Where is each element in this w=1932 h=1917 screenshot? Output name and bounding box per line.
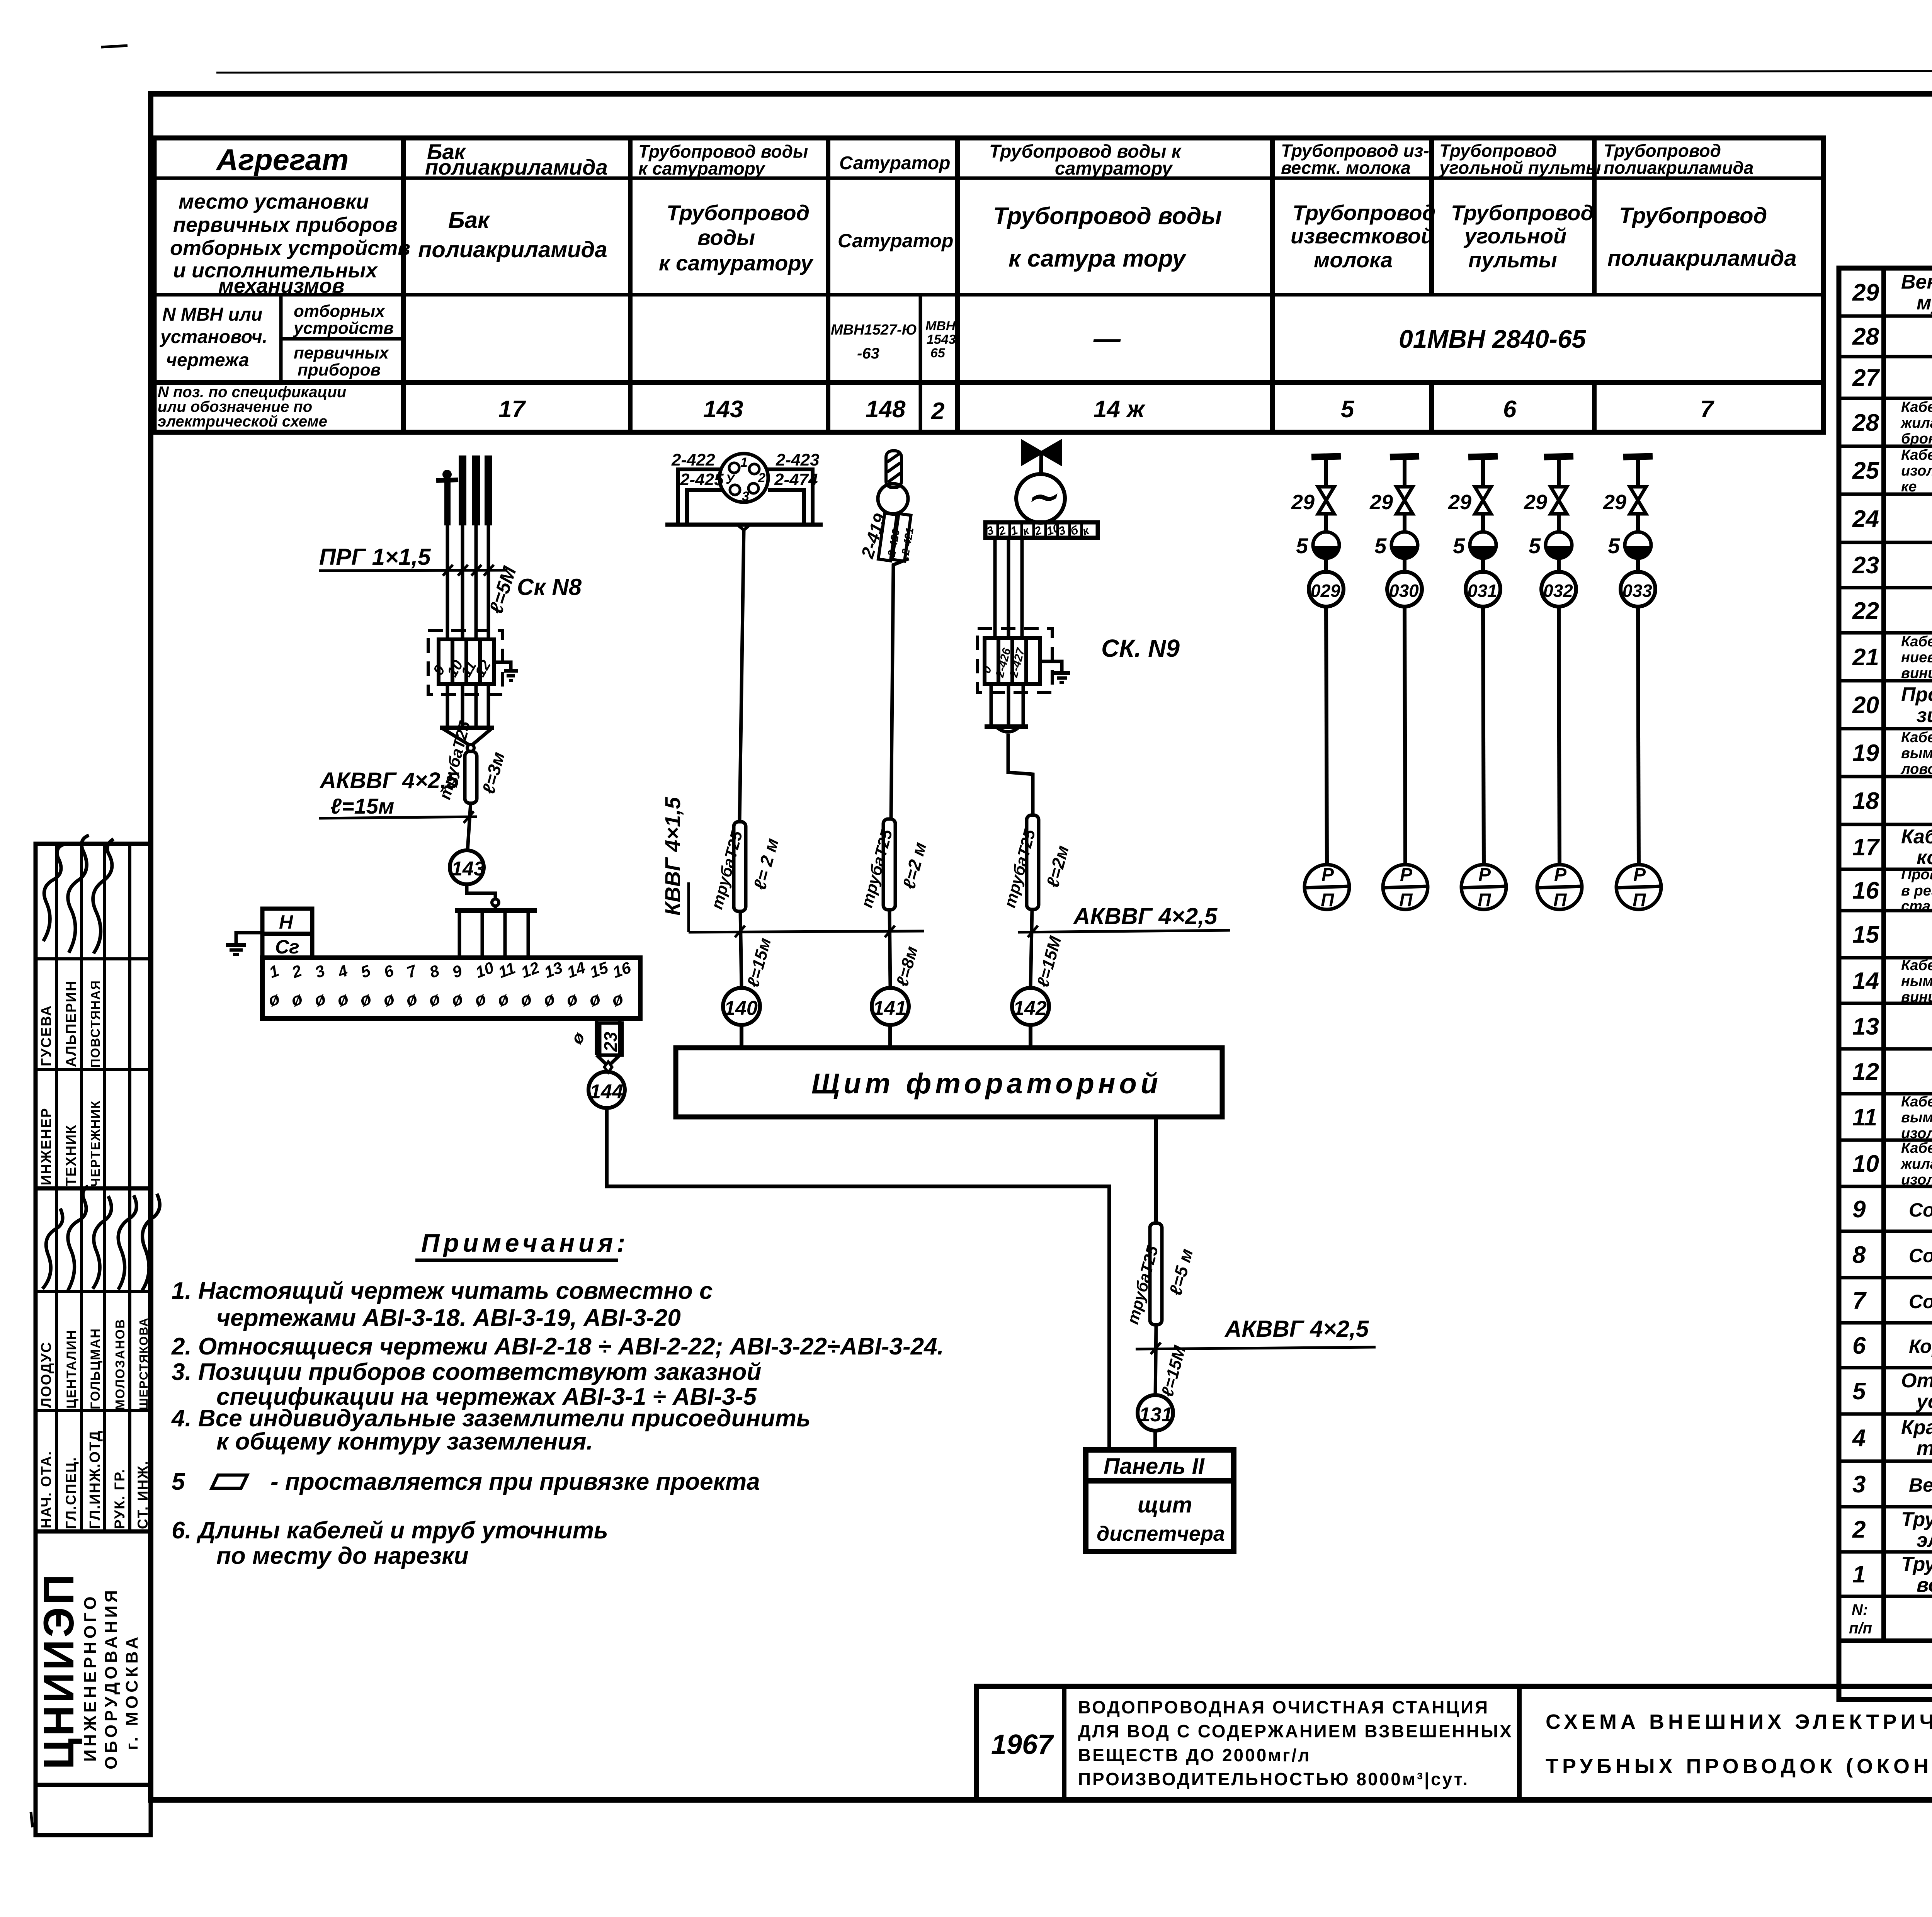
svg-text:первичных приборов: первичных приборов (173, 213, 398, 236)
svg-text:отборных: отборных (294, 302, 385, 321)
svg-text:16: 16 (1852, 877, 1879, 904)
svg-text:ℓ= 2 м: ℓ= 2 м (749, 836, 782, 892)
svg-text:Вентиль запорный: Вентиль запорный (1909, 1474, 1932, 1496)
svg-text:10: 10 (473, 958, 496, 981)
svg-text:ℓ=8м: ℓ=8м (893, 944, 922, 989)
svg-text:Сг: Сг (275, 936, 299, 958)
svg-text:29: 29 (1852, 279, 1879, 306)
svg-text:5: 5 (1852, 1378, 1866, 1405)
svg-text:Щит фтораторной: Щит фтораторной (811, 1067, 1162, 1100)
drops to terminals 9-12 (459, 911, 528, 958)
device circle 131 (1138, 1395, 1173, 1431)
svg-text:11: 11 (1852, 1104, 1877, 1131)
svg-text:полиакриламида: полиакриламида (418, 237, 607, 262)
svg-text:по месту до нарезки: по месту до нарезки (216, 1543, 468, 1569)
svg-text:ГУСЕВА: ГУСЕВА (38, 1005, 54, 1066)
svg-text:11: 11 (496, 958, 518, 981)
svg-text:143: 143 (703, 396, 743, 423)
svg-text:14: 14 (565, 958, 588, 981)
svg-text:установоч.: установоч. (160, 327, 267, 347)
svg-text:28: 28 (1852, 323, 1879, 350)
gauge Р/П (chain 032) (1537, 865, 1582, 911)
selection device 5 (chain 032) (1529, 532, 1572, 559)
stamp texts (rotated) (35, 980, 151, 1769)
svg-text:-63: -63 (857, 345, 879, 362)
device circle 144 (588, 1072, 625, 1108)
svg-text:14 ж: 14 ж (1094, 396, 1146, 423)
wire 5 to circle 030 (1403, 558, 1406, 572)
pin labels 2-422 2-423 2-425 2-474 (671, 450, 820, 489)
svg-text:9: 9 (450, 961, 465, 981)
svg-text:3: 3 (313, 961, 327, 981)
stamp block grid (left margin) (36, 844, 151, 1835)
svg-text:муфтовый: муфтовый (1917, 292, 1932, 314)
bus bar under СК N8 (440, 726, 494, 730)
wire stand to pipe B (737, 525, 750, 530)
svg-text:ТРУБНЫХ ПРОВОДОК (ОКОНЧАН: ТРУБНЫХ ПРОВОДОК (ОКОНЧАНИЕ). (1546, 1755, 1932, 1778)
dispatcher panel box (1086, 1450, 1234, 1552)
top equipment table grid (154, 138, 1823, 432)
svg-text:п/п: п/п (1849, 1620, 1872, 1637)
svg-text:1. Настоящий чертеж читат: 1. Настоящий чертеж читать совместно с (172, 1278, 713, 1304)
wire 131 to dispatcher panel (1153, 1431, 1157, 1450)
hatched rod (886, 451, 901, 488)
svg-text:01МВН 2840-65: 01МВН 2840-65 (1399, 325, 1587, 353)
converge arc (997, 727, 1019, 732)
svg-text:12: 12 (519, 958, 542, 981)
svg-text:22: 22 (1852, 598, 1879, 624)
svg-text:Кабель контрольный с алюмин: Кабель контрольный с алюмини- (1901, 1094, 1932, 1110)
svg-text:чертежами АВI-3-18. АВI-3-19,: чертежами АВI-3-18. АВI-3-19, АВI-3-20 (216, 1305, 681, 1331)
svg-text:2: 2 (1852, 1516, 1866, 1543)
svg-text:1: 1 (267, 961, 281, 981)
svg-text:СК. N9: СК. N9 (1101, 634, 1180, 662)
wire C to pipe (891, 559, 909, 819)
pipe труба Т25 l=2м (C) (883, 819, 895, 910)
svg-text:030: 030 (1389, 581, 1419, 601)
svg-text:5: 5 (1529, 534, 1541, 558)
svg-text:Р: Р (1321, 865, 1334, 885)
svg-text:СТ. ИНЖ.: СТ. ИНЖ. (135, 1460, 151, 1529)
svg-text:ø: ø (403, 988, 420, 1010)
note underline (415, 1259, 618, 1262)
svg-text:П: П (1321, 890, 1335, 911)
svg-text:16: 16 (610, 958, 634, 981)
svg-text:144: 144 (590, 1081, 623, 1103)
svg-text:трубаТ25: трубаТ25 (857, 827, 896, 909)
svg-text:ℓ=15М: ℓ=15М (1033, 934, 1065, 989)
svg-text:Р: Р (1478, 865, 1491, 885)
svg-text:сатуратору: сатуратору (1055, 158, 1173, 179)
svg-text:21: 21 (1852, 644, 1879, 671)
svg-text:ø: ø (357, 988, 374, 1010)
svg-text:Кабель контрольный с алюми: Кабель контрольный с алюми- (1901, 634, 1932, 650)
svg-text:Трубопровод: Трубопровод (667, 201, 810, 225)
svg-text:17: 17 (1852, 834, 1880, 861)
svg-text:ловой изоляцией: ловой изоляцией (1900, 761, 1932, 777)
svg-text:Провод с медными жилами: Провод с медными жилами (1901, 867, 1932, 883)
svg-text:НАЧ. ОТА.: НАЧ. ОТА. (38, 1451, 54, 1528)
strip cells (997, 523, 999, 537)
svg-text:1543: 1543 (927, 332, 956, 347)
wire pipeC to 141 (889, 910, 890, 987)
svg-text:ø: ø (288, 988, 305, 1010)
svg-text:24: 24 (1852, 506, 1879, 532)
svg-text:ными жилами в полихлор-: ными жилами в полихлор- (1901, 973, 1932, 989)
svg-text:ø: ø (495, 988, 512, 1010)
svg-text:148: 148 (866, 396, 906, 423)
svg-text:Р: Р (1554, 865, 1567, 885)
svg-text:5: 5 (358, 961, 373, 981)
svg-text:Агрегат: Агрегат (216, 143, 349, 177)
svg-text:стальной оплетке: стальной оплетке (1901, 898, 1932, 914)
svg-text:бронированный: бронированный (1901, 431, 1932, 447)
svg-text:ТЕХНИК: ТЕХНИК (63, 1124, 79, 1186)
svg-text:033: 033 (1622, 581, 1652, 601)
gauge Р/П (chain 029) (1304, 865, 1349, 911)
svg-text:к сатура тору: к сатура тору (1009, 245, 1187, 272)
svg-text:трехходовой: трехходовой (1917, 1437, 1932, 1460)
svg-text:ℓ=15м: ℓ=15м (330, 794, 394, 818)
svg-text:∼: ∼ (1026, 476, 1058, 517)
svg-text:полиакриламида: полиакриламида (1604, 158, 1753, 178)
svg-text:29: 29 (1369, 491, 1393, 514)
wire 029 to Р/П (1326, 607, 1327, 865)
svg-text:23: 23 (600, 1032, 621, 1052)
notes (Примечания) (171, 1229, 944, 1569)
svg-text:МВН1527-Ю: МВН1527-Ю (831, 322, 917, 338)
svg-text:28: 28 (1852, 410, 1879, 436)
svg-text:1: 1 (740, 455, 748, 470)
svg-text:Трубопровод: Трубопровод (1293, 201, 1435, 225)
svg-text:15: 15 (1852, 921, 1879, 948)
bus bar under СК N9 (985, 724, 1028, 729)
pipe труба Т25 l=2м (B) (734, 822, 746, 911)
wire 143 to terminal bar (467, 884, 495, 899)
svg-text:трубаТ25: трубаТ25 (1123, 1244, 1162, 1326)
svg-text:Кран контрольный: Кран контрольный (1901, 1416, 1932, 1439)
svg-text:Труба: Труба (1901, 1553, 1932, 1575)
svg-text:Кабель силовой с алюминиев.: Кабель силовой с алюминиев. (1901, 1140, 1932, 1156)
svg-text:выми жилами в полихлорвини-: выми жилами в полихлорвини- (1901, 745, 1932, 761)
svg-text:П: П (1553, 890, 1567, 911)
junction box СК N8 dashed outline (428, 631, 503, 695)
gauge Р/П (chain 031) (1461, 865, 1506, 911)
svg-text:7: 7 (1700, 396, 1714, 423)
svg-text:МВН: МВН (925, 319, 956, 333)
svg-text:2-474: 2-474 (774, 470, 818, 489)
svg-text:Соединительная коробка: Соединительная коробка (1909, 1199, 1932, 1221)
svg-text:9: 9 (1852, 1196, 1866, 1223)
wire 032 to Р/П (1559, 607, 1560, 865)
svg-text:ø: ø (449, 988, 466, 1010)
connector plate circle with pins (719, 454, 768, 502)
selection device 5 (chain 030) (1374, 532, 1418, 559)
svg-text:ниевыти жилами в полихлор: ниевыти жилами в полихлор- (1901, 649, 1932, 666)
title block texts (991, 1697, 1932, 1789)
svg-text:19: 19 (1852, 740, 1879, 766)
instrument circle 031 (1466, 572, 1500, 607)
svg-text:РУК. ГР.: РУК. ГР. (112, 1468, 128, 1529)
svg-text:7: 7 (1852, 1288, 1867, 1314)
svg-text:ø: ø (517, 988, 534, 1010)
svg-text:КВВГ 4×1,5: КВВГ 4×1,5 (660, 797, 685, 916)
svg-text:2-423: 2-423 (776, 450, 820, 469)
svg-text:первичных: первичных (294, 343, 389, 362)
sensor circle ~ (1016, 474, 1065, 523)
wire valve to device 5 (chain 032) (1557, 514, 1561, 532)
device circle 143 (450, 850, 484, 884)
device circle 140 (723, 988, 760, 1025)
svg-text:Коробка протяжная: Коробка протяжная (1909, 1336, 1932, 1357)
svg-text:электрической схеме: электрической схеме (158, 413, 327, 430)
svg-text:зиновой изоляцией: зиновой изоляцией (1917, 704, 1932, 727)
svg-text:Соединительная коробка: Соединительная коробка (1909, 1291, 1932, 1312)
svg-text:N:: N: (1852, 1601, 1868, 1618)
svg-text:воды: воды (697, 225, 755, 250)
pipe труба Т25 l=3м (465, 751, 477, 803)
svg-text:- проставляется при привяз: - проставляется при привязке проекта (270, 1468, 760, 1495)
svg-text:электросварная: электросварная (1917, 1529, 1932, 1552)
selection device 5 (chain 033) (1608, 532, 1651, 559)
shut-off valve (bowtie) (1022, 442, 1060, 464)
svg-text:6: 6 (1503, 396, 1517, 423)
svg-text:ø: ø (563, 988, 580, 1010)
svg-text:трубаТ25: трубаТ25 (707, 829, 746, 911)
wire 030 to Р/П (1405, 607, 1405, 865)
svg-text:5: 5 (172, 1468, 185, 1495)
svg-text:ВОДОПРОВОДНАЯ ОЧИСТНАЯ СТАНЦ: ВОДОПРОВОДНАЯ ОЧИСТНАЯ СТАНЦИЯ (1078, 1697, 1489, 1717)
converge V (443, 729, 492, 745)
gauge Р/П (chain 033) (1616, 865, 1661, 911)
wires terminals 15,16 down (595, 1018, 599, 1055)
svg-text:29: 29 (1291, 491, 1315, 514)
pipe tap T-head (chain 031) (1468, 456, 1498, 485)
svg-text:2-425: 2-425 (680, 470, 724, 489)
svg-text:18: 18 (1852, 788, 1879, 814)
svg-text:142: 142 (1013, 997, 1047, 1020)
svg-text:водогазопроводная: водогазопроводная (1917, 1574, 1932, 1596)
pipe tap T-head (chain 030) (1390, 456, 1419, 485)
svg-text:чертежа: чертежа (166, 350, 249, 370)
valve 29 (chain 029) (1291, 487, 1334, 514)
wire pipe5м to 131 (1155, 1325, 1156, 1395)
wire 5 to circle 032 (1557, 558, 1561, 572)
ground at H/Cr (226, 933, 262, 955)
svg-text:140: 140 (724, 997, 758, 1020)
wire 140 to panel box (740, 1025, 743, 1048)
svg-text:изоляции: изоляции (1901, 1125, 1932, 1142)
svg-text:ОБОРУДОВАНИЯ: ОБОРУДОВАНИЯ (102, 1587, 121, 1769)
svg-text:АКВВГ 4×2,5: АКВВГ 4×2,5 (1224, 1316, 1369, 1342)
svg-text:вестк. молока: вестк. молока (1281, 158, 1411, 178)
svg-text:N МВН или: N МВН или (162, 304, 262, 325)
svg-text:2. Относящиеся чертежи АВI-2: 2. Относящиеся чертежи АВI-2-18 ÷ АВI-2-… (171, 1333, 944, 1360)
wire 033 to Р/П (1638, 607, 1639, 865)
junction box СК N8 body (439, 639, 494, 684)
svg-text:Сатуратор: Сатуратор (839, 153, 950, 173)
svg-text:ø: ø (472, 988, 489, 1010)
wire valve to device 5 (chain 031) (1481, 514, 1485, 532)
svg-text:в резиновой изоляции в: в резиновой изоляции в (1901, 883, 1932, 899)
svg-text:У: У (726, 472, 736, 487)
svg-text:коаксиальный: коаксиальный (1917, 846, 1932, 869)
svg-text:выми жилами в полихлорвинилов: выми жилами в полихлорвиниловой (1901, 1110, 1932, 1126)
wire pipeB to 140 (740, 911, 742, 987)
svg-text:6. Длины кабелей и тру: 6. Длины кабелей и труб уточнить (172, 1517, 608, 1544)
wire valve to device 5 (chain 030) (1403, 514, 1406, 532)
svg-text:ø: ø (586, 988, 603, 1010)
svg-text:АКВВГ 4×2,5: АКВВГ 4×2,5 (1073, 903, 1218, 929)
valve 29 (chain 031) (1448, 487, 1491, 514)
panel Щит фтораторной (676, 1048, 1222, 1117)
svg-text:полиакриламида: полиакриламида (425, 155, 608, 179)
svg-text:ГЛ.СПЕЦ.: ГЛ.СПЕЦ. (63, 1456, 79, 1529)
svg-text:ПРОИЗВОДИТЕЛЬНОСТЬЮ 8000м³|су: ПРОИЗВОДИТЕЛЬНОСТЬЮ 8000м³|сут. (1078, 1769, 1469, 1789)
instrument circle 032 (1541, 572, 1576, 607)
svg-text:ø: ø (380, 988, 397, 1010)
svg-text:Панель II: Панель II (1104, 1454, 1205, 1479)
svg-text:143: 143 (451, 858, 485, 880)
svg-text:29: 29 (1448, 491, 1471, 514)
svg-text:29: 29 (1524, 491, 1547, 514)
svg-text:известковой: известковой (1291, 224, 1434, 248)
svg-text:Трубопровод: Трубопровод (1451, 201, 1594, 225)
svg-text:ø: ø (426, 988, 443, 1010)
svg-text:20: 20 (1852, 692, 1879, 719)
svg-text:диспетчера: диспетчера (1097, 1522, 1225, 1545)
pipe tap T-head (chain 029) (1311, 456, 1341, 485)
cable marker box 23 (600, 1023, 622, 1055)
svg-text:Р: Р (1400, 865, 1413, 885)
svg-text:Кабель: Кабель (1901, 826, 1932, 848)
svg-text:виниловой изоляции: виниловой изоляции (1901, 665, 1932, 681)
paper crease line top (216, 71, 1932, 73)
stamp signatures (squiggles) (43, 835, 160, 1290)
svg-text:131: 131 (1139, 1404, 1173, 1426)
svg-text:Вентиль запорный: Вентиль запорный (1901, 271, 1932, 293)
twin marker boxes 2-420 2-421 (878, 512, 911, 563)
circle of 2-419 device (878, 484, 908, 514)
svg-text:Сатуратор: Сатуратор (838, 230, 953, 252)
svg-text:65: 65 (930, 346, 946, 360)
svg-text:5: 5 (1608, 534, 1620, 558)
svg-text:угольной пульты: угольной пульты (1439, 158, 1601, 178)
svg-text:место установки: место установки (179, 190, 369, 213)
svg-text:2-419: 2-419 (857, 511, 890, 561)
svg-text:ШЕРСТЯКОВА: ШЕРСТЯКОВА (137, 1317, 150, 1410)
wire 142 to panel box (1029, 1025, 1032, 1048)
svg-text:29: 29 (1603, 491, 1626, 514)
wires strip to СК N9 (995, 538, 1022, 638)
svg-text:ℓ=3м: ℓ=3м (478, 750, 509, 796)
stamp bottom tick (31, 1812, 32, 1827)
wire 5 to circle 029 (1324, 558, 1328, 572)
svg-text:2: 2 (931, 398, 944, 425)
svg-text:жилами в полихлорвиниловой.: жилами в полихлорвиниловой. (1900, 1156, 1932, 1172)
svg-text:к сатуратору: к сатуратору (638, 158, 766, 178)
svg-text:ø: ø (609, 988, 626, 1010)
svg-text:ℓ=15м: ℓ=15м (743, 936, 775, 989)
svg-text:Бак: Бак (448, 207, 490, 233)
svg-text:ГЛ.ИНЖ.ОТД: ГЛ.ИНЖ.ОТД (87, 1430, 103, 1529)
svg-text:АЛЬПЕРИН: АЛЬПЕРИН (63, 980, 79, 1067)
bar over terminals 9-12 (455, 908, 537, 913)
svg-text:устройство: устройство (1915, 1390, 1932, 1413)
wire 144 to panel (L-shape) (607, 1108, 1109, 1450)
svg-text:12: 12 (472, 658, 494, 680)
small terminal strip (985, 522, 1098, 538)
svg-text:изоляцией в свинцовой оболо: изоляцией в свинцовой оболоч- (1901, 463, 1932, 479)
svg-text:Н: Н (279, 911, 293, 933)
connector stand bracket (665, 469, 823, 525)
ground at СК N8 (494, 662, 518, 680)
svg-text:ПОВСТЯНАЯ: ПОВСТЯНАЯ (88, 980, 102, 1068)
svg-text:031: 031 (1468, 581, 1497, 601)
svg-text:029: 029 (1311, 581, 1340, 601)
svg-text:г. МОСКВА: г. МОСКВА (122, 1634, 141, 1750)
svg-text:Трубопровод: Трубопровод (1619, 203, 1767, 228)
svg-text:2: 2 (758, 471, 765, 485)
svg-text:ВЕЩЕСТВ ДО 2000мг/л: ВЕЩЕСТВ ДО 2000мг/л (1078, 1745, 1311, 1765)
svg-text:10: 10 (1852, 1151, 1879, 1177)
svg-text:отборных устройств: отборных устройств (170, 236, 410, 260)
svg-text:3. Позиции приборов соотве: 3. Позиции приборов соответствуют заказн… (172, 1359, 761, 1385)
svg-text:Кабель силовой с алюминие-: Кабель силовой с алюминие- (1901, 729, 1932, 746)
wire panel to pipe 5м (1154, 1117, 1158, 1223)
title block grid (976, 1686, 1932, 1800)
svg-text:Отборное: Отборное (1901, 1370, 1932, 1392)
wires СК N8 to bus (447, 684, 488, 728)
svg-text:5: 5 (1374, 534, 1387, 558)
top table texts (158, 139, 1797, 430)
equipment list (экспликация) table grid (1839, 268, 1932, 1699)
small mark top-left (101, 46, 128, 47)
wire 5 to circle 031 (1481, 558, 1485, 572)
svg-text:032: 032 (1543, 581, 1573, 601)
note 5 box symbol (212, 1475, 247, 1488)
wire valve to device 5 (chain 033) (1636, 514, 1640, 532)
svg-text:Ск N8: Ск N8 (517, 574, 582, 600)
svg-text:ø: ø (311, 988, 328, 1010)
wire 141 to panel box (888, 1025, 892, 1048)
svg-text:5: 5 (1453, 534, 1465, 558)
label line КВВГ (over B,C) (689, 931, 924, 932)
terminal numbers 9-12 in СК N8 (430, 658, 494, 680)
svg-text:4. Все индивидуальные зазе: 4. Все индивидуальные заземлители присое… (171, 1405, 811, 1432)
svg-text:ДЛЯ ВОД С СОДЕРЖАНИЕМ ВЗВЕШЕ: ДЛЯ ВОД С СОДЕРЖАНИЕМ ВЗВЕШЕННЫХ (1078, 1721, 1513, 1741)
svg-text:3: 3 (1852, 1471, 1866, 1498)
wire СК N9 to pipe (jog) (1008, 734, 1033, 815)
svg-text:молока: молока (1314, 248, 1393, 272)
svg-text:13: 13 (1852, 1013, 1879, 1040)
svg-text:2: 2 (289, 961, 304, 981)
svg-text:8: 8 (1852, 1242, 1866, 1268)
svg-text:угольной: угольной (1463, 224, 1566, 248)
junction box СК N9 body (985, 638, 1040, 684)
svg-text:щит: щит (1138, 1492, 1192, 1518)
svg-text:изоляции, бронированный: изоляции, бронированный (1901, 1172, 1932, 1188)
svg-text:5: 5 (1341, 396, 1355, 423)
instrument circle 033 (1621, 572, 1655, 607)
cable ПРГ stub 1 (with T head) (436, 470, 458, 639)
svg-text:ø: ø (541, 988, 558, 1010)
svg-text:141: 141 (873, 997, 906, 1020)
svg-text:Трубопровод воды: Трубопровод воды (993, 203, 1222, 229)
svg-text:5: 5 (1296, 534, 1308, 558)
wire valve to device 5 (chain 029) (1324, 514, 1328, 532)
pipe tap T-head (chain 033) (1623, 456, 1653, 485)
